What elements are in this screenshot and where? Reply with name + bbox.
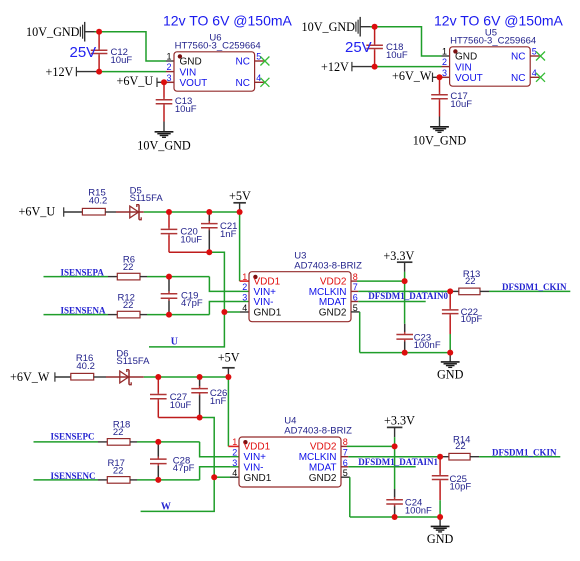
svg-text:S115FA: S115FA [130,193,164,204]
capacitor C25 [432,457,472,517]
svg-text:VDD1: VDD1 [244,442,271,453]
junction C25 bottom / GND [437,514,443,520]
svg-text:GND2: GND2 [309,473,337,484]
svg-text:+5V: +5V [229,189,251,203]
svg-text:NC: NC [511,73,525,84]
power port +6V_W (bottom) [10,370,55,384]
wire R12 to U3 pin3 VIN- [140,302,249,315]
resistor R13 [450,269,480,295]
resistor R12 [117,293,140,318]
junction U5 pin3 / C17 [437,74,443,80]
svg-text:AD7403-8-BRIZ: AD7403-8-BRIZ [284,426,352,437]
svg-text:10uF: 10uF [111,55,133,66]
capacitor C19 [161,277,203,315]
wire +3.3V down to C24 [394,446,396,489]
diode D5 S115FA [130,185,164,219]
wire +12V to U5 pin2 [352,66,450,68]
svg-text:W: W [161,501,171,512]
capacitor C21 [201,212,237,252]
wire R15 to D5 [105,211,144,213]
junction C12 bottom [96,69,102,75]
ground GND (middle) [437,353,464,382]
power port +5V (middle) [229,189,251,212]
svg-text:+3.3V: +3.3V [384,414,415,428]
capacitor C12 [91,32,133,72]
junction GND1 branch [221,309,227,315]
svg-text:DFSDM1_CKIN: DFSDM1_CKIN [492,447,557,457]
junction C22 bottom / GND [447,350,453,356]
svg-text:10V_GND: 10V_GND [137,138,191,152]
svg-text:VIN-: VIN- [244,462,264,473]
svg-text:1: 1 [166,52,171,62]
svg-text:12v TO 6V @150mA: 12v TO 6V @150mA [163,13,293,29]
U6 pin 4 NC no-connect [255,78,270,87]
svg-text:10pF: 10pF [450,482,472,493]
svg-text:1: 1 [442,47,447,57]
svg-text:25V: 25V [70,44,97,61]
U6 pin 5 NC no-connect [255,57,270,66]
op-amp U4 AD7403-8-BRIZ [232,416,352,487]
regulator U6 HT7560-3_C259664 [166,33,261,91]
svg-text:2: 2 [232,448,237,458]
svg-text:22: 22 [123,262,134,273]
svg-text:22: 22 [455,441,466,452]
svg-text:100nF: 100nF [414,340,441,351]
svg-text:DFSDM1_CKIN: DFSDM1_CKIN [502,282,567,292]
wire +5V down to U4 pin1 VDD1 [228,377,239,446]
svg-text:22: 22 [113,466,124,477]
svg-text:DFSDM1_DATAIN1: DFSDM1_DATAIN1 [358,457,438,467]
wire +6V_U to U6 pin3 [157,81,174,83]
power port +12V (right) [321,60,352,74]
junction C28 bottom [155,477,161,483]
svg-text:100nF: 100nF [405,505,432,516]
capacitor C24 [386,489,432,517]
wire +6V_U to R15 [64,211,83,213]
svg-text:VIN-: VIN- [254,297,274,308]
junction +5V (bottom) [225,374,231,380]
wire C27/C26 bottom rail [158,417,199,419]
svg-text:S115FA: S115FA [116,356,150,367]
wire D5 to +5V rail [144,211,240,213]
svg-text:22: 22 [123,300,134,311]
svg-text:VOUT: VOUT [180,78,208,89]
svg-text:1: 1 [232,437,237,447]
wire U4 pin8 VDD2 to +3.3V [341,445,395,447]
ground earth below C17 [430,127,449,133]
junction GND1 branch (bottom) [211,474,217,480]
resistor R15 [82,188,107,215]
capacitor C27 [150,377,192,418]
junction C26 top [197,374,203,380]
regulator U5 HT7560-3_C259664 [442,28,537,86]
svg-text:10V_GND: 10V_GND [302,20,356,34]
wire R14 to DFSDM1_CKIN [470,456,560,458]
resistor R6 [117,254,140,280]
resistor R17 [107,458,130,483]
svg-text:10pF: 10pF [461,314,483,325]
power port +6V_U (top) [117,74,158,88]
wire +6V_W to U5 pin3 [433,76,450,78]
svg-text:4: 4 [232,468,237,478]
svg-text:3: 3 [242,293,247,303]
U5 pin 5 NC no-connect [530,52,545,61]
power port +6V_U (middle) [19,205,64,219]
resistor R14 [440,434,470,460]
power port +5V (bottom) [218,351,240,377]
svg-text:+5V: +5V [218,351,240,365]
diode D6 S115FA [116,349,150,385]
wire to U4 pin4 GND1 [214,476,239,478]
svg-text:3: 3 [232,458,237,468]
capacitor C28 [150,442,195,480]
svg-text:+12V: +12V [321,60,349,74]
svg-text:DFSDM1_DATAIN0: DFSDM1_DATAIN0 [368,291,448,301]
junction C19 top [166,274,172,280]
capacitor C20 [161,212,203,252]
power port +12V (left) [46,65,77,79]
wire U3 pin6 MDAT stub [351,301,426,303]
wire R6 to U3 pin2 VIN+ [140,277,249,292]
svg-text:GND: GND [455,52,477,63]
power port 10V_GND (top left) [26,22,85,42]
junction C18 bottom [372,64,378,70]
junction C23 bottom [402,350,408,356]
svg-text:10uF: 10uF [386,50,408,61]
svg-text:AD7403-8-BRIZ: AD7403-8-BRIZ [294,260,362,271]
svg-text:NC: NC [236,57,250,68]
wire 10V_GND to C12 top and U6 pin1 [85,32,174,61]
resistor R18 [107,420,130,446]
svg-text:GND2: GND2 [319,308,347,319]
svg-text:40.2: 40.2 [76,361,95,372]
wire R18 to U4 pin2 VIN+ [130,442,239,457]
wire +6V_W to R16 [55,376,71,378]
wire U4 pin6 MDAT stub [341,466,416,468]
svg-text:+6V_U: +6V_U [19,205,56,219]
svg-text:10uF: 10uF [175,104,197,115]
svg-text:HT7560-3_C259664: HT7560-3_C259664 [175,40,261,51]
wire +12V to U6 pin2 [76,71,174,73]
resistor R16 [71,353,95,380]
svg-text:12v TO 6V @150mA: 12v TO 6V @150mA [434,13,564,29]
wire U3 pin7 MCLKIN to R13 [351,290,450,292]
wire ISENSENC to R17 [34,479,108,481]
junction C28 top [155,439,161,445]
svg-text:VIN: VIN [180,67,197,78]
svg-text:VDD1: VDD1 [254,276,281,287]
junction C18 top [372,24,378,30]
ground earth below C13 [155,132,174,138]
wire R16 to D6 [94,376,144,378]
svg-text:NC: NC [236,78,250,89]
svg-text:+6V_W: +6V_W [392,69,432,83]
svg-text:VOUT: VOUT [455,73,483,84]
junction U6 pin3 / C13 [161,79,167,85]
capacitor C18 [366,27,408,67]
svg-text:22: 22 [465,276,476,287]
wire ISENSEPA to R6 [44,276,118,278]
svg-text:GND: GND [427,532,454,546]
svg-text:3: 3 [166,73,171,83]
wire ISENSENA to R12 [44,314,118,316]
wire U4 pin7 MCLKIN to R14 [341,456,440,458]
junction C12 top [96,29,102,35]
junction C27 top [155,374,161,380]
power port 10V_GND (top right) [302,17,361,37]
svg-text:+6V_U: +6V_U [117,74,154,88]
svg-text:2: 2 [242,282,247,292]
svg-text:10V_GND: 10V_GND [413,133,467,147]
wire to W net and U4 GND1 [141,418,215,512]
power port +3.3V (bottom) [384,414,415,447]
svg-text:+12V: +12V [46,65,74,79]
svg-text:GND: GND [437,368,464,382]
wire R13 to DFSDM1_CKIN [480,290,570,292]
svg-text:HT7560-3_C259664: HT7560-3_C259664 [450,35,536,46]
svg-text:47pF: 47pF [173,463,195,474]
op-amp U3 AD7403-8-BRIZ [242,250,362,321]
junction +5V [237,209,243,215]
svg-text:2: 2 [166,62,171,72]
power port +6V_W (top) [392,69,433,83]
junction C19 bottom [166,312,172,318]
svg-text:22: 22 [113,427,124,438]
svg-text:8: 8 [353,272,358,282]
wire C20/C21 bottom rail [169,251,209,253]
wire U3 pin5 GND2 to ground rail [351,312,450,353]
capacitor C22 [442,291,483,352]
svg-text:2: 2 [442,57,447,67]
svg-text:3: 3 [442,68,447,78]
svg-text:1: 1 [242,272,247,282]
svg-text:10uF: 10uF [180,235,202,246]
wire D6 to +5V rail [144,376,229,378]
svg-text:+6V_W: +6V_W [10,370,50,384]
svg-text:40.2: 40.2 [89,196,108,207]
wire U4 pin5 GND2 to ground rail [341,477,440,517]
svg-text:GND1: GND1 [244,473,272,484]
svg-text:47pF: 47pF [181,298,203,309]
capacitor C23 [396,324,440,353]
junction C21 bottom [206,249,212,255]
wire to U net and U3 GND1 [149,252,224,347]
svg-text:VDD2: VDD2 [320,276,347,287]
capacitor C26 [191,377,227,418]
wire +5V down to U3 pin1 VDD1 [240,212,249,281]
svg-text:8: 8 [343,437,348,447]
svg-text:+3.3V: +3.3V [383,249,414,263]
wire R17 to U4 pin3 VIN- [130,467,239,480]
junction R14 / C25 [437,454,443,460]
svg-text:4: 4 [242,303,247,313]
wire ISENSEPC to R18 [34,441,108,443]
junction +3.3V / C24 [392,443,398,449]
svg-text:GND1: GND1 [254,308,282,319]
svg-text:NC: NC [511,52,525,63]
svg-text:MDAT: MDAT [319,297,347,308]
svg-text:10V_GND: 10V_GND [26,25,80,39]
svg-text:1nF: 1nF [220,229,237,240]
junction C20 top [166,209,172,215]
ground GND (bottom) [427,517,454,546]
svg-text:VDD2: VDD2 [310,442,337,453]
svg-text:U: U [171,336,178,347]
junction C21 top [206,209,212,215]
junction C26 bottom [197,415,203,421]
capacitor C13 [156,82,197,131]
svg-text:VIN: VIN [455,62,472,73]
svg-text:MDAT: MDAT [309,462,337,473]
junction +3.3V / C23 [402,278,408,284]
capacitor C17 [431,77,472,126]
svg-text:GND: GND [180,57,202,68]
svg-text:25V: 25V [345,39,372,56]
wire +3.3V down to C23 [404,281,406,324]
power port +3.3V (middle) [383,249,414,281]
svg-text:10uF: 10uF [450,99,472,110]
junction R13 / C22 [447,288,453,294]
wire to U3 pin4 GND1 [224,311,249,313]
svg-text:1nF: 1nF [210,396,227,407]
wire 10V_GND to C18 top and U5 pin1 [360,27,449,56]
wire U3 pin8 VDD2 to +3.3V [351,280,405,282]
junction C24 bottom [392,514,398,520]
svg-text:10uF: 10uF [170,400,192,411]
U5 pin 4 NC no-connect [530,73,545,82]
svg-text:ISENSEPC: ISENSEPC [51,431,95,441]
